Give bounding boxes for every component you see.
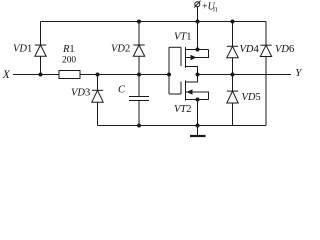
svg-text:VT1: VT1 bbox=[174, 32, 192, 43]
transistor VT1 (p-channel MOSFET) bbox=[169, 22, 209, 75]
VT1 drain stub bbox=[186, 67, 198, 75]
svg-text:VD3: VD3 bbox=[71, 88, 90, 99]
svg-text:X: X bbox=[2, 69, 11, 81]
junction dot rail-VD2 bbox=[137, 20, 141, 24]
diode VD5 bbox=[232, 75, 234, 92]
junction dot rail-VD4 bbox=[231, 20, 235, 24]
diode VD2 bbox=[138, 22, 140, 46]
svg-text:VD4: VD4 bbox=[240, 44, 260, 55]
wire X to R1 bbox=[13, 74, 59, 76]
VT1 substrate loop bbox=[186, 50, 209, 58]
VT1 gate bar bbox=[180, 47, 182, 66]
svg-text:200: 200 bbox=[62, 56, 76, 66]
diode VD6 bbox=[265, 22, 267, 46]
VT1 channel bar bbox=[185, 47, 187, 68]
diode VD3 bbox=[97, 75, 99, 91]
ground symbol bbox=[197, 126, 199, 137]
VT1 source lead to rail bbox=[197, 22, 199, 50]
bottom ground rail bbox=[98, 125, 267, 127]
VT1 gate lead bbox=[169, 46, 181, 48]
junction dot VD1-X bbox=[39, 73, 43, 77]
VT1 source stub bbox=[186, 49, 209, 51]
VT2 source junction dot bbox=[196, 98, 200, 102]
transistor VT2 (n-channel MOSFET) bbox=[169, 75, 209, 126]
top +U rail bbox=[41, 21, 267, 23]
VT2 channel bar bbox=[185, 81, 187, 101]
resistor R1 bbox=[59, 71, 80, 79]
junction dot bottom-ground bbox=[196, 124, 200, 128]
wire R1 to gate bus bbox=[80, 74, 169, 76]
svg-text:C: C bbox=[118, 85, 126, 96]
diode VD4 bbox=[232, 22, 234, 47]
gate bus wire bbox=[168, 47, 170, 94]
VT2 substrate arrow bbox=[187, 89, 193, 94]
svg-text:VD2: VD2 bbox=[111, 44, 130, 55]
junction dot output node bbox=[196, 73, 200, 77]
VT1 substrate arrow bbox=[191, 55, 197, 60]
VT2 source lead to ground rail bbox=[197, 100, 199, 126]
diode VD1 bbox=[40, 22, 42, 46]
svg-text:Y: Y bbox=[295, 67, 303, 79]
VT2 substrate loop bbox=[186, 92, 209, 100]
svg-text:VD1: VD1 bbox=[13, 44, 32, 55]
svg-text:VT2: VT2 bbox=[174, 104, 192, 115]
VT2 gate lead bbox=[169, 93, 181, 95]
svg-text:R1: R1 bbox=[62, 44, 75, 55]
wire output node to Y bbox=[198, 74, 292, 76]
node gate junction on X line bbox=[167, 73, 171, 77]
power terminal +Uп bbox=[197, 7, 199, 22]
junction dot VD3-X bbox=[96, 73, 100, 77]
svg-text:VD6: VD6 bbox=[275, 44, 294, 55]
junction dot VD4-VD5-Y bbox=[231, 73, 235, 77]
svg-text:П: П bbox=[213, 7, 218, 14]
VT2 source stub bbox=[186, 99, 209, 101]
VT2 gate bar bbox=[180, 82, 182, 95]
VT1 source junction dot bbox=[196, 48, 200, 52]
junction dot bottom-C bbox=[137, 124, 141, 128]
svg-text:VD5: VD5 bbox=[242, 92, 261, 103]
junction dot VD2-C-X bbox=[137, 73, 141, 77]
capacitor C bbox=[138, 75, 140, 97]
junction dot rail-terminal bbox=[196, 20, 200, 24]
VT2 drain stub bbox=[186, 75, 198, 83]
